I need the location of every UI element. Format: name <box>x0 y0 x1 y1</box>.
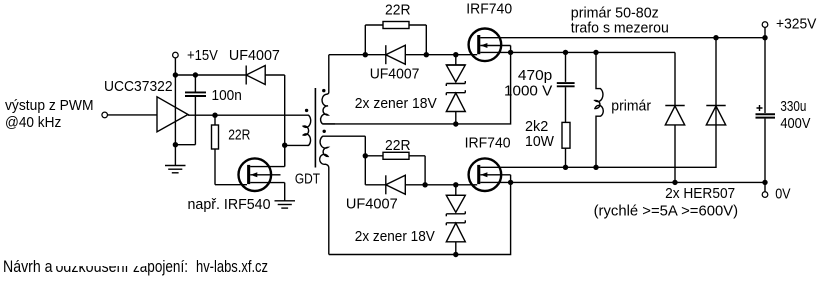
wire +15V rail to diode <box>175 74 246 76</box>
node snubber bottom <box>563 165 568 170</box>
svg-text:2x zener 18V: 2x zener 18V <box>355 95 437 112</box>
svg-text:Návrh a: Návrh a <box>3 258 53 276</box>
svg-text:např. IRF540: např. IRF540 <box>188 196 271 213</box>
svg-text:330u: 330u <box>780 98 806 115</box>
node IRF540 drain / GDT primary bottom <box>282 143 287 148</box>
node bottom 22R right <box>422 182 427 187</box>
svg-text:22R: 22R <box>385 137 411 154</box>
capacitor C1 100n <box>194 75 196 92</box>
svg-text:UCC37322: UCC37322 <box>104 78 173 95</box>
inductor primar winding <box>595 52 603 167</box>
wire 0V stub <box>764 182 766 191</box>
node primar bottom <box>593 165 598 170</box>
wire input to buffer <box>108 114 157 116</box>
zener pair bottom 2x zener 18V <box>446 185 465 255</box>
wire bottom zener node to gate <box>456 184 477 186</box>
svg-text:hv-labs.xf.cz: hv-labs.xf.cz <box>196 258 268 276</box>
svg-text:výstup z PWM: výstup z PWM <box>5 97 94 114</box>
node top source junction <box>508 50 513 55</box>
wire GDT primary bottom to drain node <box>285 144 308 146</box>
wire gate-return bottom <box>329 182 511 254</box>
svg-text:+15V: +15V <box>187 47 218 64</box>
node +325V rail junction <box>762 35 767 40</box>
diode D5 HER507 right (to +325V) <box>706 38 725 125</box>
node top 22R right <box>424 52 429 57</box>
node top zener bottom <box>453 121 458 126</box>
svg-text:(rychlé >=5A >=600V): (rychlé >=5A >=600V) <box>594 203 739 220</box>
resistor R3 22R bottom <box>365 152 425 185</box>
transformer GDT secondary bottom winding <box>320 136 335 254</box>
wire top gate main <box>365 54 386 56</box>
wire source rail corner down to diode D4 <box>674 52 676 105</box>
node D4 anode at 0V rail <box>672 180 677 185</box>
capacitor C3 330u 400V <box>764 38 766 113</box>
svg-text:IRF740: IRF740 <box>465 135 511 152</box>
wire +15V vertical through buffer to ground <box>174 58 176 165</box>
transformer GDT secondary top winding <box>321 55 335 124</box>
svg-text:@40 kHz: @40 kHz <box>5 114 61 131</box>
0V terminal <box>762 192 768 198</box>
wire +325V stub <box>764 28 766 38</box>
white clip box over footer <box>55 250 148 266</box>
ground under UCC37322 <box>165 166 186 173</box>
zener pair top 2x zener 18V <box>446 55 465 124</box>
wire D1 anode down to IRF540 drain node <box>284 75 286 167</box>
svg-text:primár: primár <box>611 98 651 115</box>
wire buffer output to GDT primary top <box>188 114 308 116</box>
resistor R2 22R top loop <box>365 22 426 55</box>
svg-text:100n: 100n <box>212 87 242 104</box>
svg-text:1000 V: 1000 V <box>504 83 552 100</box>
wire primary-bottom rail to diode D5 <box>566 106 717 168</box>
node D5 cathode at +325V rail <box>713 35 718 40</box>
+325V terminal <box>762 22 768 28</box>
input terminal <box>102 112 108 118</box>
node buffer ground junction <box>173 142 178 147</box>
transformer GDT core <box>314 88 316 168</box>
svg-text:22R: 22R <box>228 127 250 144</box>
resistor R4 2k2 10W <box>562 122 570 148</box>
wire gate-return top: sec winding to source <box>323 52 511 124</box>
node bottom 22R left <box>363 153 368 158</box>
svg-text:GDT: GDT <box>295 171 320 188</box>
diode D4 HER507 left (0V to primary top) <box>665 106 684 183</box>
svg-text:+325V: +325V <box>776 16 816 33</box>
svg-text:2x zener 18V: 2x zener 18V <box>355 228 435 245</box>
capacitor C2 470p <box>565 52 567 82</box>
node 0V rail junction <box>762 180 767 185</box>
GDT secondary bottom phase dot <box>323 130 326 133</box>
svg-text:0V: 0V <box>775 186 790 203</box>
+15V terminal <box>173 52 179 58</box>
node 100n top junction <box>193 72 198 77</box>
node 22R top junction <box>212 113 217 118</box>
node +15V junction <box>173 72 178 77</box>
node snubber top <box>563 50 568 55</box>
diode D3 UF4007 bottom module <box>365 156 425 195</box>
node bottom zener top <box>453 182 458 187</box>
wire GDT sec-bottom to bottom gate network <box>364 136 366 156</box>
node top 22R left <box>363 52 368 57</box>
diode D1 UF4007 top-left <box>246 66 285 85</box>
transistor Q1 IRF540 <box>239 158 285 200</box>
transformer GDT primary winding <box>303 115 311 145</box>
svg-text:22R: 22R <box>385 2 411 19</box>
wire to top zener node <box>426 54 456 56</box>
svg-text:UF4007: UF4007 <box>346 196 398 213</box>
svg-text:400V: 400V <box>780 115 810 132</box>
node top zener top <box>453 52 458 57</box>
svg-text:10W: 10W <box>525 133 555 150</box>
resistor R1 22R (gate IRF540) <box>214 115 216 125</box>
node bottom source junction <box>508 180 513 185</box>
GDT primary phase dot <box>305 109 308 112</box>
ground under IRF540 <box>275 201 296 208</box>
C3 plus sign <box>757 105 763 111</box>
node bottom zener bottom <box>453 252 458 257</box>
wire top zener node to gate <box>456 54 477 56</box>
svg-text:470p: 470p <box>518 67 552 84</box>
diode D2 UF4007 top module <box>386 45 427 64</box>
op-amp U1 UCC37322 buffer triangle <box>157 97 188 132</box>
wire IRF540 drain up <box>284 145 286 166</box>
transistor Q2 IRF740 top <box>469 29 765 62</box>
node primar top <box>593 50 598 55</box>
svg-text:IRF740: IRF740 <box>466 1 512 18</box>
wire to bottom zener node <box>425 184 456 186</box>
svg-text:2x HER507: 2x HER507 <box>665 185 735 202</box>
wire GDT sec-top to top gate network <box>329 54 366 56</box>
svg-text:UF4007: UF4007 <box>370 66 420 83</box>
svg-text:UF4007: UF4007 <box>229 47 280 64</box>
svg-text:trafo s mezerou: trafo s mezerou <box>571 20 669 37</box>
transistor Q3 IRF740 bottom <box>469 158 765 191</box>
GDT secondary top phase dot <box>322 89 325 92</box>
